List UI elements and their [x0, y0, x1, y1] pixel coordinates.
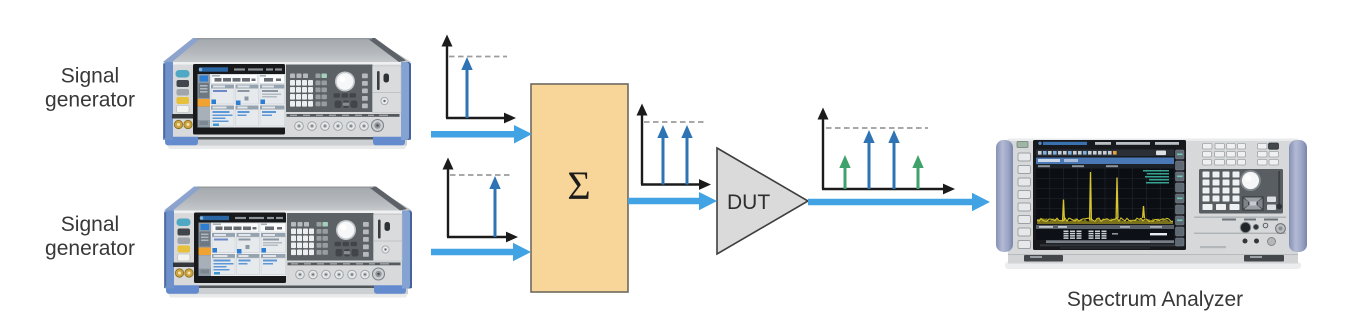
svg-text:Signal: Signal	[61, 213, 119, 236]
svg-text:generator: generator	[45, 237, 135, 260]
svg-text:DUT: DUT	[727, 191, 770, 214]
svg-text:generator: generator	[45, 89, 135, 112]
svg-text:Spectrum Analyzer: Spectrum Analyzer	[1067, 288, 1243, 311]
svg-text:Signal: Signal	[61, 65, 119, 88]
svg-text:Σ: Σ	[567, 163, 590, 208]
